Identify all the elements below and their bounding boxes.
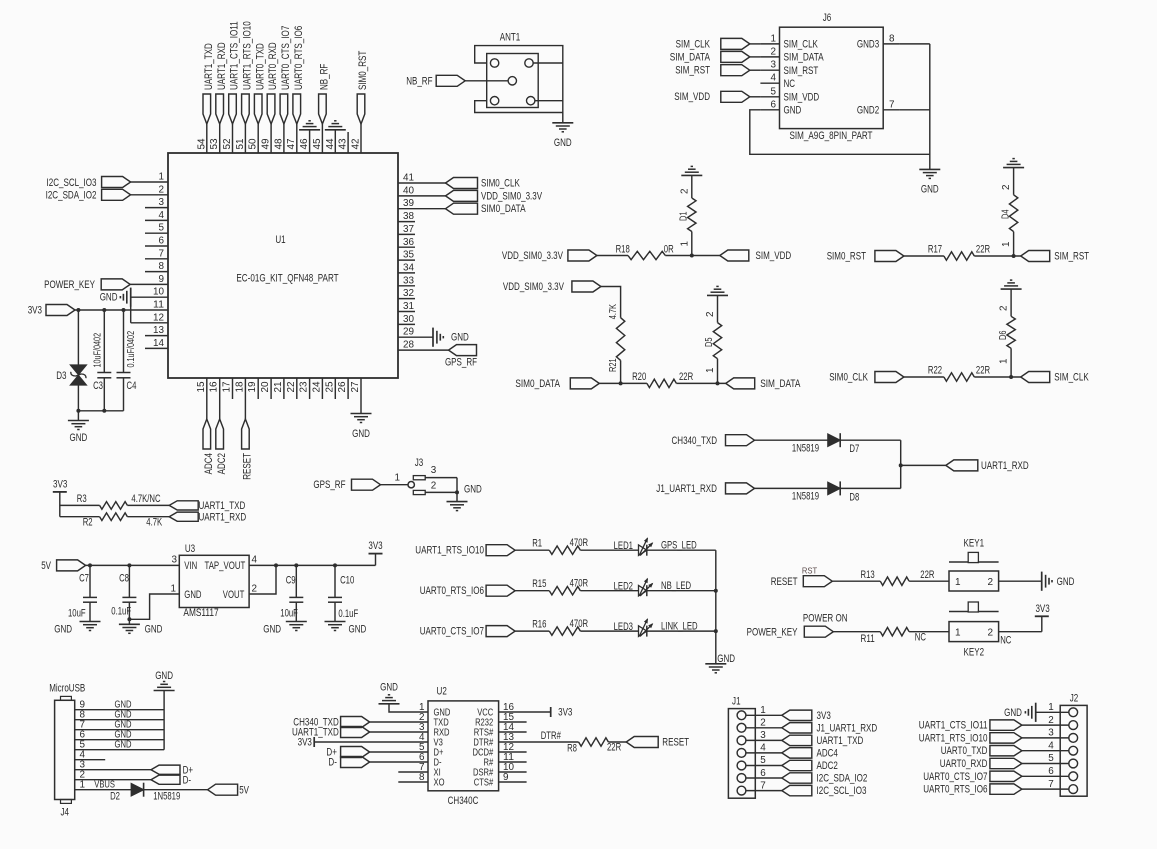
node SIM_CLK flag to J6 pin 1 (676, 38, 761, 50)
U1 pin 6 stub (145, 236, 168, 247)
wire LED common cathode (714, 550, 718, 664)
U2 pin 1 GND label (419, 702, 450, 719)
U1 pin 36 stub (398, 237, 415, 248)
U1 pin 39 number (403, 198, 415, 209)
svg-text:3: 3 (159, 197, 165, 208)
svg-text:11: 11 (153, 300, 165, 311)
U1 pin 4 stub (145, 210, 168, 221)
ground below C9 (263, 622, 306, 636)
svg-text:R8: R8 (567, 743, 577, 755)
svg-text:U3: U3 (185, 543, 195, 555)
U1 pin 20 stub (270, 378, 272, 399)
node VDD_SIM0_3.3V flag (R18 row) (502, 250, 597, 262)
U1 pin 13 stub (145, 325, 168, 336)
svg-text:GND: GND (115, 739, 132, 750)
label RST (802, 566, 817, 576)
wire J4 ground bus (163, 691, 165, 750)
J6 pin 8 GND3 (857, 33, 900, 50)
svg-text:GND: GND (464, 483, 482, 495)
capacitor C8 0.1uF (111, 565, 136, 624)
ground below D3 (68, 411, 89, 444)
svg-text:GND: GND (145, 624, 163, 636)
J2 pin 5 pad (1069, 759, 1078, 768)
node UART1_CTS_IO11 flag on U1 pin 52 (229, 94, 237, 153)
ground at U1 pin 29 (398, 328, 469, 347)
svg-text:GND: GND (380, 682, 398, 694)
ground below J3 (447, 483, 482, 510)
svg-text:3: 3 (172, 554, 178, 565)
U1 pin 28 number (403, 340, 415, 351)
svg-text:R3: R3 (77, 493, 87, 505)
svg-text:14: 14 (153, 338, 165, 349)
svg-text:D7: D7 (849, 443, 859, 455)
U1 pin 18 number (234, 381, 245, 393)
node ADC4 flag on U1 pin 15 (203, 378, 211, 449)
label UART1_RTS_IO10 (242, 21, 254, 90)
svg-text:GND: GND (1004, 707, 1022, 719)
svg-text:1: 1 (955, 627, 961, 638)
svg-text:7: 7 (889, 99, 895, 110)
node I2C_SCL_IO3 flag (J1 pin 7) (746, 780, 867, 797)
svg-text:45: 45 (312, 138, 323, 150)
svg-text:1: 1 (771, 33, 777, 44)
node D+ flag (J4 pin 3) (75, 759, 193, 776)
node I2C_SDA_IO2 flag to U1 pin 2 (46, 189, 168, 201)
svg-text:1: 1 (999, 358, 1010, 364)
resistor R16 470R (515, 618, 588, 635)
wire R3 to UART1_TXD flag (127, 504, 169, 506)
U2 pin 15 R232 label (475, 712, 514, 729)
svg-text:22R: 22R (976, 365, 990, 377)
svg-text:18: 18 (234, 381, 245, 393)
U1 pin 17 stub (232, 378, 234, 399)
svg-text:1: 1 (1048, 702, 1054, 713)
U1 pin 5 stub (145, 223, 168, 234)
U1 pin 21 number (273, 381, 284, 393)
J2 pin 3 pad (1069, 734, 1078, 743)
U2 pin 8 XO stub (398, 781, 428, 783)
U2 pin 4 V3 label (419, 732, 443, 749)
U1 pin 41 number (403, 173, 415, 184)
svg-text:SIM_CLK: SIM_CLK (1054, 372, 1089, 384)
svg-text:R21: R21 (608, 358, 619, 372)
ground above D4 (1003, 159, 1024, 168)
wire J6 GND pins to ground (750, 44, 930, 169)
wire J3 to ground (455, 478, 459, 502)
U2 pin 6 D- label (419, 752, 442, 769)
node UART1_CTS_IO11 flag (J2 pin 2) (919, 715, 1069, 732)
svg-text:40: 40 (403, 185, 415, 196)
U1 pin 22 number (286, 382, 297, 393)
svg-text:SIM_DATA: SIM_DATA (760, 378, 801, 390)
svg-text:1: 1 (159, 172, 165, 183)
U2 pin 7 XI stub (398, 771, 428, 773)
U2 pin 14 stub (499, 731, 527, 733)
svg-text:9: 9 (159, 274, 165, 285)
wire ANT1 to ground (562, 113, 564, 123)
svg-text:D4: D4 (1000, 209, 1011, 219)
label RESET (242, 453, 254, 480)
svg-text:R11: R11 (861, 633, 875, 645)
svg-text:XO: XO (434, 778, 445, 789)
svg-text:GND: GND (70, 432, 88, 444)
node UART1_TXD flag (J1 pin 3) (746, 730, 863, 747)
wire U2 pin 13 DTR# (499, 730, 579, 742)
svg-text:D2: D2 (110, 791, 120, 803)
svg-text:2: 2 (159, 184, 165, 195)
J2 pin 2 pad (1069, 721, 1078, 730)
node D- flag (U2 pin 6) (328, 757, 428, 769)
resistor R17 22R (904, 244, 990, 261)
svg-text:1: 1 (705, 367, 716, 373)
node RESET flag (KEY1) (771, 576, 833, 588)
svg-text:RESET: RESET (771, 576, 798, 588)
J6 pin 6 GND (760, 99, 801, 116)
svg-text:SIM_DATA: SIM_DATA (784, 52, 825, 64)
ground below ANT1 (552, 123, 573, 149)
svg-text:33: 33 (403, 275, 415, 286)
svg-text:GND: GND (717, 653, 735, 665)
wire 3V3 rail down to D3 (76, 308, 80, 365)
svg-text:UART0_CTS_IO7: UART0_CTS_IO7 (420, 626, 484, 638)
resistor R20 22R (599, 371, 693, 388)
U2 pin 16 VCC label (477, 702, 514, 719)
svg-text:12: 12 (153, 312, 164, 323)
svg-text:1: 1 (1001, 241, 1012, 247)
svg-text:UART0_RTS_IO6: UART0_RTS_IO6 (923, 784, 987, 796)
svg-text:3V3: 3V3 (817, 710, 831, 722)
connector J4 MicroUSB body (49, 683, 85, 819)
svg-text:50: 50 (248, 138, 259, 150)
J6 pin 2 SIM_DATA (760, 46, 824, 63)
svg-text:SIM_CLK: SIM_CLK (676, 38, 711, 50)
svg-text:R20: R20 (632, 371, 646, 383)
node UART1_RTS_IO10 flag on U1 pin 51 (242, 94, 250, 153)
wire D3 to ground rail (76, 385, 123, 413)
node SIM0_CLK flag on U1 pin 41 (398, 178, 520, 190)
svg-text:2: 2 (705, 312, 716, 318)
J6 pin 3 SIM_RST (760, 60, 818, 77)
svg-text:CTS#: CTS# (474, 778, 494, 789)
diode D2 1N5819 (110, 783, 180, 803)
node SIM_RST flag (1021, 251, 1090, 263)
svg-text:470R: 470R (570, 537, 589, 549)
svg-text:3V3: 3V3 (368, 540, 382, 552)
U1 pin 20 number (260, 381, 271, 393)
svg-text:R1: R1 (532, 538, 542, 550)
U1 pin 42 number (351, 139, 362, 150)
switch KEY2 (949, 602, 999, 659)
svg-text:0.1uF: 0.1uF (338, 608, 358, 620)
svg-text:LED2: LED2 (614, 581, 633, 593)
svg-text:41: 41 (403, 173, 415, 184)
svg-text:SIM_CLK: SIM_CLK (784, 39, 819, 51)
svg-text:7: 7 (760, 780, 766, 791)
antenna ANT1 outline (475, 32, 563, 113)
svg-text:38: 38 (403, 211, 415, 222)
wire U3 pin 4 to 3V3 (249, 563, 375, 567)
svg-text:3V3: 3V3 (558, 707, 572, 719)
svg-text:VBUS: VBUS (94, 779, 115, 790)
switch KEY1 (949, 538, 999, 592)
wire U1 pin 11 to pin 12 (131, 306, 168, 323)
svg-text:6: 6 (1048, 766, 1054, 777)
ground above D6 (1001, 280, 1022, 289)
J4 pin 4 stub (75, 749, 106, 760)
diode D4 (zigzag symbol) (1000, 168, 1018, 256)
node VDD_SIM0_3.3V flag on U1 pin 40 (398, 190, 543, 202)
svg-text:SIM_A9G_8PIN_PART: SIM_A9G_8PIN_PART (790, 130, 873, 142)
label UART1_RXD (216, 42, 228, 90)
resistor R13 22R (832, 569, 934, 586)
U2 pin 7 XI label (419, 762, 441, 779)
svg-text:3V3: 3V3 (53, 479, 67, 491)
svg-text:D3: D3 (56, 370, 66, 382)
resistor R8 22R (567, 738, 621, 755)
svg-text:5: 5 (771, 86, 777, 97)
svg-text:C3: C3 (93, 380, 103, 392)
svg-text:D5: D5 (704, 337, 715, 347)
node SIM_VDD flag (R18 row) (720, 250, 791, 262)
svg-text:30: 30 (403, 314, 415, 325)
U1 pin 52 number (222, 139, 233, 150)
node UART0_CTS_IO7 flag (J2 pin 6) (923, 766, 1069, 783)
svg-text:3: 3 (431, 465, 437, 476)
diode D5 (zigzag symbol) (704, 295, 722, 383)
U2 pin 2 TXD label (419, 712, 449, 729)
label NC at KEY2 pin 2 (1000, 635, 1011, 647)
node UART1_TXD flag on U1 pin 54 (203, 94, 211, 153)
svg-text:R16: R16 (532, 618, 546, 630)
svg-text:4: 4 (1048, 740, 1054, 751)
wire D7 to junction (840, 440, 901, 465)
capacitor C3 (92, 308, 111, 413)
svg-text:10uF: 10uF (68, 607, 86, 619)
U1 pin 50 number (248, 138, 259, 150)
resistor R1 470R (515, 537, 588, 554)
svg-text:UART1_RTS_IO10: UART1_RTS_IO10 (415, 545, 484, 557)
svg-text:I2C_SCL_IO3: I2C_SCL_IO3 (47, 177, 97, 189)
J1 pin 6 pad (737, 774, 746, 783)
svg-text:UART0_CTS_IO7: UART0_CTS_IO7 (280, 26, 292, 90)
diode D7 1N5819 (755, 433, 860, 455)
svg-text:6: 6 (159, 236, 165, 247)
svg-text:3: 3 (771, 60, 777, 71)
svg-text:NC: NC (915, 631, 926, 643)
resistor R3 4.7K/NC (60, 493, 161, 509)
svg-text:2: 2 (987, 577, 993, 588)
svg-text:GND: GND (554, 137, 572, 149)
node ADC2 flag on U1 pin 16 (216, 378, 224, 449)
svg-text:J2: J2 (1070, 693, 1079, 705)
U1 pin 43 number (338, 138, 349, 150)
svg-text:D6: D6 (998, 330, 1009, 340)
svg-text:27: 27 (350, 382, 361, 393)
J1 pin 1 pad (737, 711, 746, 720)
connector J3 pin 3 (413, 465, 457, 480)
wire U1 pin 27 to ground (360, 378, 362, 414)
U2 pin 15 stub (499, 721, 527, 723)
U1 pin 23 number (299, 381, 310, 393)
svg-text:RESET: RESET (242, 453, 254, 480)
svg-text:1: 1 (679, 241, 690, 247)
U1 pin 7 stub (145, 248, 168, 259)
svg-text:DTR#: DTR# (541, 730, 561, 742)
svg-text:1N5819: 1N5819 (792, 442, 819, 454)
svg-text:1: 1 (80, 779, 86, 790)
svg-text:C8: C8 (119, 572, 129, 584)
U2 pin 13 DTR# label (473, 732, 514, 749)
svg-text:GND: GND (349, 624, 367, 636)
node SIM0_RST flag on U1 pin 42 (357, 94, 365, 153)
U2 pin 8 XO label (419, 772, 445, 789)
LED LED2 (580, 579, 691, 597)
svg-text:17: 17 (222, 382, 233, 393)
svg-text:10uF/0402: 10uF/0402 (92, 333, 103, 368)
svg-text:LED3: LED3 (614, 621, 633, 633)
node SIM_VDD flag to J6 pin 5 (674, 91, 760, 103)
svg-text:RST: RST (802, 566, 817, 576)
svg-text:UART0_TXD: UART0_TXD (254, 43, 266, 90)
label ADC4 (203, 453, 215, 474)
ground below J6 (919, 169, 940, 195)
node RESET flag (R8) (626, 737, 689, 749)
svg-text:470R: 470R (570, 578, 589, 590)
node UART1_RTS_IO10 flag (J2 pin 3) (919, 728, 1069, 745)
svg-text:J1: J1 (732, 696, 741, 708)
U2 pin 11 R# label (484, 752, 515, 769)
svg-text:EC-01G_KIT_QFN48_PART: EC-01G_KIT_QFN48_PART (236, 273, 338, 285)
label UART1_CTS_IO11 (229, 21, 241, 90)
wire U2 pin 1 to ground (389, 704, 428, 712)
svg-text:22R: 22R (976, 244, 990, 256)
wire R2 to UART1_RXD flag (127, 516, 169, 518)
node UART0_RXD flag on U1 pin 49 (267, 94, 275, 153)
svg-text:SIM0_DATA: SIM0_DATA (515, 378, 560, 390)
node J1_UART1_RXD flag (J1 pin 2) (746, 718, 877, 735)
svg-text:CH340C: CH340C (448, 795, 479, 807)
svg-text:3V3: 3V3 (1035, 603, 1049, 615)
svg-text:D-: D- (183, 774, 192, 786)
U2 pin 9 CTS# label (474, 772, 509, 789)
IC U1 EC-01G_KIT_QFN48_PART body (168, 153, 398, 378)
node UART1_RTS_IO10 flag (LED1 row) (415, 545, 515, 557)
svg-text:SIM0_DATA: SIM0_DATA (481, 203, 526, 215)
svg-text:UART1_RXD: UART1_RXD (216, 42, 228, 90)
U1 pin 47 number (286, 139, 297, 150)
svg-text:4: 4 (760, 743, 766, 754)
node SIM_DATA flag to J6 pin 2 (670, 51, 761, 63)
node SIM_RST flag to J6 pin 3 (675, 65, 760, 77)
LED LED1 (580, 538, 697, 556)
U2 pin 10 stub (499, 771, 527, 773)
node SIM0_DATA flag on U1 pin 39 (398, 203, 526, 215)
svg-text:25: 25 (324, 381, 335, 393)
node I2C_SCL_IO3 flag to U1 pin 1 (47, 177, 169, 189)
svg-text:1N5819: 1N5819 (153, 791, 180, 803)
J1 pin 2 pad (737, 723, 746, 732)
svg-text:2: 2 (431, 480, 437, 491)
svg-text:8: 8 (889, 33, 895, 44)
U1 pin 9 number (159, 274, 165, 285)
svg-text:VDD_SIM0_3.3V: VDD_SIM0_3.3V (502, 250, 564, 262)
svg-text:J1_UART1_RXD: J1_UART1_RXD (656, 483, 717, 495)
svg-text:I2C_SCL_IO3: I2C_SCL_IO3 (817, 785, 867, 797)
svg-text:GPS_RF: GPS_RF (313, 479, 345, 491)
U3 pin numbers (171, 554, 258, 594)
svg-text:C10: C10 (340, 575, 354, 587)
svg-text:GND: GND (921, 184, 939, 196)
svg-text:VDD_SIM0_3.3V: VDD_SIM0_3.3V (481, 190, 543, 202)
svg-text:4.7K: 4.7K (146, 517, 162, 529)
svg-text:ANT1: ANT1 (500, 32, 521, 44)
U1 pin 8 stub (145, 261, 168, 272)
node CH340_TXD flag (D7 row) (672, 435, 755, 447)
svg-text:2: 2 (1048, 715, 1054, 726)
J2 pin 6 pad (1069, 772, 1078, 781)
U1 pin 33 stub (398, 275, 415, 286)
U1 pin 38 stub (398, 211, 415, 222)
svg-text:36: 36 (403, 237, 415, 248)
svg-text:ADC2: ADC2 (216, 453, 228, 474)
diode D1 (zigzag symbol) (679, 175, 697, 255)
node UART1_RXD flag (R2) (169, 511, 246, 523)
U1 pin 29 number (403, 327, 415, 338)
svg-text:0.1uF/0402: 0.1uF/0402 (126, 331, 137, 368)
svg-text:3: 3 (760, 730, 766, 741)
svg-text:22: 22 (286, 382, 297, 393)
svg-text:J3: J3 (415, 457, 424, 469)
resistor R11 NC (833, 628, 926, 645)
svg-text:10: 10 (153, 287, 165, 298)
U1 pin 45 number (312, 138, 323, 150)
J4 pin 8 GND wire (75, 709, 164, 720)
J2 pin 1 pad (1069, 708, 1078, 717)
node RESET flag on U1 pin 18 (242, 378, 250, 449)
capacitor C10 0.1uF (328, 565, 359, 621)
U2 pin 3 RXD label (419, 722, 450, 739)
svg-text:1: 1 (760, 705, 766, 716)
svg-text:D-: D- (328, 757, 337, 769)
connector J2 body (1060, 693, 1087, 797)
svg-text:SIM_VDD: SIM_VDD (784, 91, 820, 103)
capacitor C7 10uF (68, 565, 97, 621)
wire R13 to KEY1 (909, 580, 949, 582)
svg-text:2: 2 (252, 583, 258, 594)
node ADC2 flag (J1 pin 5) (746, 755, 838, 772)
svg-text:GND: GND (1057, 576, 1075, 588)
wire R17 to SIM_RST flag (974, 254, 1020, 258)
wire R11 to KEY2 (909, 631, 949, 633)
node SIM0_DATA flag (515, 378, 599, 390)
svg-text:UART1_TXD: UART1_TXD (817, 735, 864, 747)
svg-text:2: 2 (679, 189, 690, 195)
resistor R18 0R (597, 243, 674, 259)
svg-text:470R: 470R (570, 618, 589, 630)
svg-text:54: 54 (196, 138, 207, 150)
label UART0_RTS_IO6 (293, 26, 305, 90)
node UART0_RTS_IO6 flag (J2 pin 7) (923, 779, 1069, 796)
svg-text:47: 47 (286, 139, 297, 150)
node CH340_TXD flag (U2 pin 2) (293, 717, 428, 729)
node NB_RF flag on U1 pin 45 (319, 94, 327, 153)
U1 pin 53 number (209, 138, 220, 150)
svg-text:GND: GND (54, 624, 72, 636)
svg-text:24: 24 (311, 381, 322, 393)
svg-text:51: 51 (235, 138, 246, 150)
svg-text:GND3: GND3 (857, 39, 879, 51)
svg-text:26: 26 (337, 381, 348, 393)
